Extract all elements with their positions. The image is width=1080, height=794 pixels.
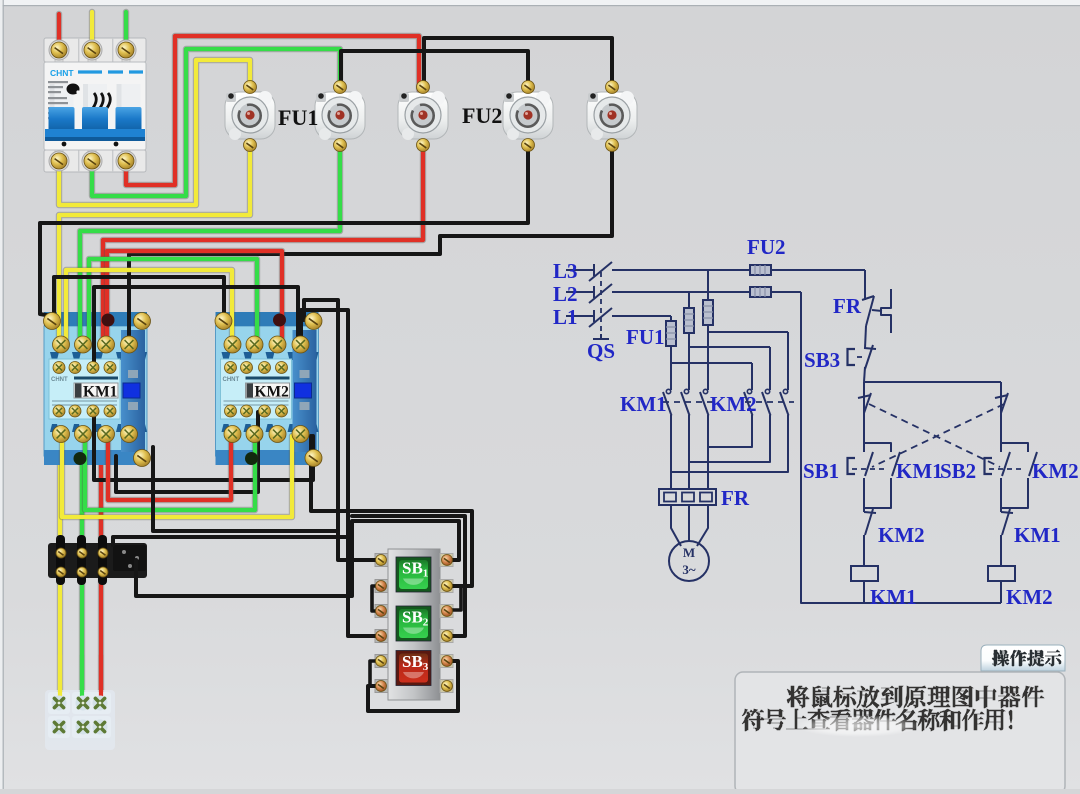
- svg-text:CHNT: CHNT: [51, 377, 68, 383]
- svg-text:CHNT: CHNT: [223, 377, 240, 383]
- svg-text:SB1: SB1: [803, 459, 839, 483]
- svg-text:FU1: FU1: [626, 325, 665, 349]
- svg-text:SB3: SB3: [804, 348, 840, 372]
- svg-text:KM1: KM1: [83, 384, 117, 401]
- svg-text:FU1: FU1: [278, 105, 318, 130]
- svg-text:SB2: SB2: [940, 459, 976, 483]
- svg-text:KM1: KM1: [870, 585, 917, 609]
- svg-text:KM2: KM2: [710, 392, 757, 416]
- svg-text:KM1: KM1: [1014, 523, 1061, 547]
- svg-text:FU2: FU2: [462, 103, 502, 128]
- svg-text:3~: 3~: [682, 562, 696, 577]
- svg-text:L3: L3: [553, 259, 578, 283]
- svg-text:KM1: KM1: [896, 459, 943, 483]
- svg-text:KM2: KM2: [1006, 585, 1053, 609]
- svg-text:L2: L2: [553, 282, 578, 306]
- svg-text:M: M: [683, 545, 695, 560]
- svg-text:KM2: KM2: [255, 384, 290, 401]
- svg-text:CHNT: CHNT: [50, 68, 74, 78]
- svg-text:QS: QS: [587, 339, 615, 363]
- svg-text:KM1: KM1: [620, 392, 667, 416]
- svg-text:KM2: KM2: [878, 523, 925, 547]
- svg-text:FU2: FU2: [747, 235, 786, 259]
- svg-text:KM2: KM2: [1032, 459, 1079, 483]
- svg-text:FR: FR: [833, 294, 862, 318]
- svg-text:FR: FR: [721, 486, 750, 510]
- svg-text:L1: L1: [553, 305, 578, 329]
